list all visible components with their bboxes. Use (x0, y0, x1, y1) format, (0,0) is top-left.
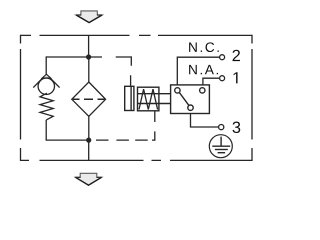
wire: node A left to relief-valve branch (46, 56, 88, 58)
relief valve poppet triangle (42, 74, 50, 78)
relief valve seat line right (50, 77, 60, 87)
switch arm blade (179, 93, 189, 106)
wire: terminal 2 to N.C. contact (177, 57, 219, 85)
relief valve spring (40, 93, 53, 120)
wire: terminal 1 to N.A. contact (203, 78, 220, 85)
label terminal number 1 (234, 72, 238, 83)
protective earth circle (209, 135, 232, 158)
outlet port arrow (bottom, grey block arrow pointing down) (75, 173, 102, 185)
contact N.C. (top-left) (175, 88, 180, 93)
label N.C. (189, 42, 219, 52)
label terminal number 3 (233, 122, 241, 134)
piston cylinder body (125, 86, 134, 110)
node B junction dot (86, 138, 91, 143)
orifice diamond (72, 82, 106, 116)
wire: orifice diamond down to node B (88, 116, 90, 140)
wire: node A down to orifice diamond (88, 57, 90, 82)
relief valve outlet wire (45, 120, 47, 140)
wire: bottom return line to node B (46, 139, 89, 141)
label N.A. (189, 65, 218, 74)
actuator rod upper line (138, 93, 172, 95)
orifice dashed center line (73, 98, 105, 100)
terminal 3 circle (219, 125, 224, 130)
enclosure border top (dashed) (21, 34, 253, 36)
dashed drain line node B to spring chamber, horizontal part (96, 139, 155, 141)
piston plate (130, 86, 132, 110)
microswitch box (171, 85, 210, 114)
contact N.A. (top-right) (200, 88, 205, 93)
terminal 2 circle (220, 55, 225, 60)
inlet port arrow (top, grey block arrow pointing down) (76, 11, 102, 23)
wire: common contact to terminal 3 (191, 114, 219, 128)
wire: top border down to node A (88, 35, 90, 57)
earth bar long (212, 145, 230, 147)
earth bar middle (215, 149, 228, 151)
actuator rod lower line (138, 103, 172, 105)
contact common (bottom-center) (188, 105, 193, 110)
pilot line (dashed) node A to piston, horizontal part (91, 56, 131, 58)
earth stem (220, 137, 222, 147)
enclosure border right (dashed) (251, 35, 253, 161)
actuator spring zigzag (139, 89, 158, 109)
relief valve ball (circle) (38, 78, 54, 94)
earth bar short (218, 152, 226, 154)
pilot line (dashed) vertical part down to piston (130, 56, 133, 86)
enclosure border left (dashed) (20, 35, 22, 161)
terminal 1 circle (220, 76, 225, 81)
enclosure border bottom (dashed) (21, 159, 253, 161)
relief valve seat line left (33, 77, 43, 87)
relief valve inlet wire (45, 56, 47, 74)
spring housing box (138, 87, 159, 111)
wire: node B down to bottom border (88, 140, 90, 160)
label terminal number 2 (233, 50, 240, 61)
dashed drain line vertical part up to spring box (154, 111, 156, 141)
node A junction dot (86, 54, 91, 59)
